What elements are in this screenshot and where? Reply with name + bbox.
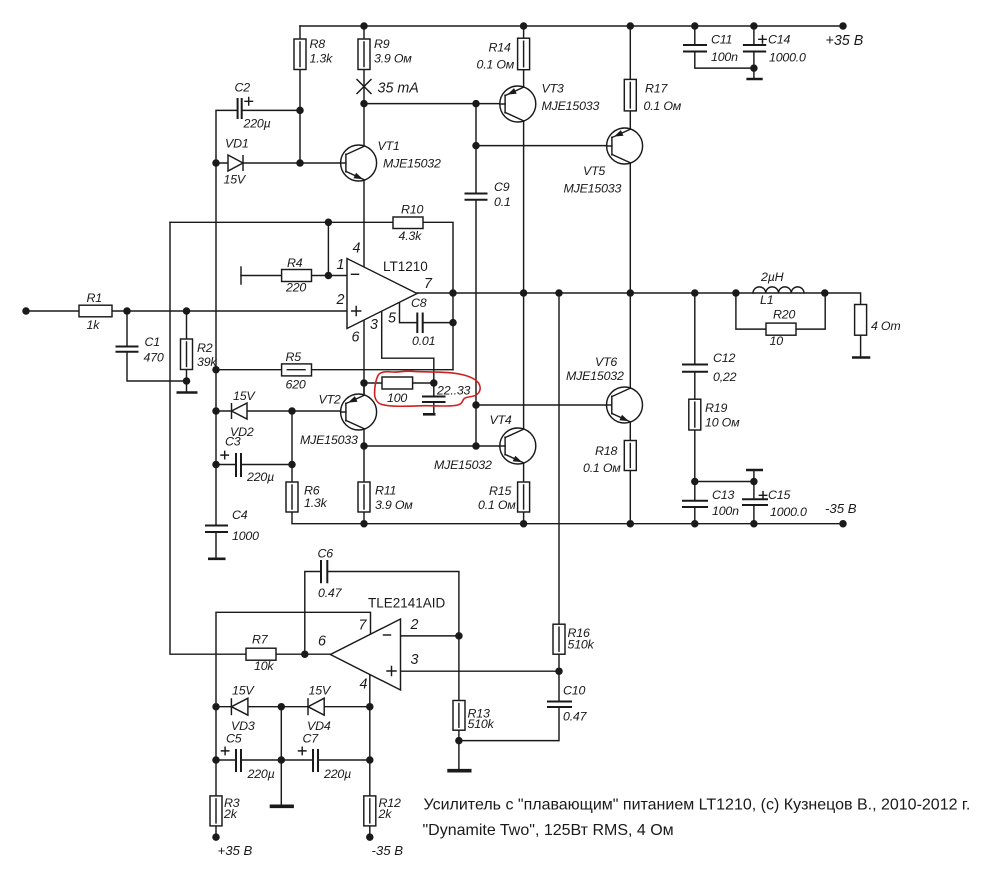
svg-text:C14: C14: [768, 33, 790, 47]
svg-text:2k: 2k: [223, 807, 238, 821]
svg-text:R4: R4: [287, 256, 303, 270]
svg-text:"Dynamite Two", 125Вт RMS, 4 О: "Dynamite Two", 125Вт RMS, 4 Ом: [423, 822, 674, 839]
svg-text:LT1210: LT1210: [383, 259, 428, 274]
svg-text:0.1 Ом: 0.1 Ом: [477, 58, 515, 72]
svg-text:0,22: 0,22: [713, 370, 737, 384]
svg-text:0.1 Ом: 0.1 Ом: [478, 498, 516, 512]
svg-text:1.3k: 1.3k: [310, 52, 334, 66]
svg-text:1000: 1000: [232, 529, 259, 543]
svg-text:4.3k: 4.3k: [399, 229, 423, 243]
svg-text:0.1: 0.1: [494, 195, 511, 209]
svg-text:3: 3: [370, 317, 378, 333]
svg-text:C2: C2: [235, 81, 251, 95]
svg-text:R17: R17: [645, 82, 668, 96]
svg-text:MJE15032: MJE15032: [566, 369, 624, 383]
svg-text:MJE15032: MJE15032: [383, 157, 441, 171]
svg-text:R1: R1: [87, 291, 102, 305]
svg-text:L1: L1: [760, 293, 773, 307]
svg-text:4 Om: 4 Om: [871, 319, 901, 333]
svg-text:3.9 Ом: 3.9 Ом: [374, 52, 412, 66]
svg-text:R18: R18: [595, 444, 617, 458]
svg-text:C9: C9: [494, 180, 510, 194]
svg-text:Усилитель с "плавающим" питани: Усилитель с "плавающим" питанием LT1210,…: [424, 797, 971, 814]
svg-text:2: 2: [410, 617, 419, 633]
svg-text:R19: R19: [705, 401, 727, 415]
svg-text:VT1: VT1: [378, 139, 400, 153]
svg-text:-35 В: -35 В: [825, 501, 857, 516]
svg-text:VT6: VT6: [595, 355, 617, 369]
svg-text:5: 5: [388, 311, 396, 327]
svg-text:510k: 510k: [568, 638, 595, 652]
svg-text:C8: C8: [411, 296, 427, 310]
svg-text:220µ: 220µ: [247, 767, 275, 781]
svg-text:10k: 10k: [254, 659, 274, 673]
svg-text:6: 6: [352, 330, 360, 346]
svg-text:1.3k: 1.3k: [304, 496, 328, 510]
svg-text:1k: 1k: [87, 318, 101, 332]
svg-text:10: 10: [770, 334, 784, 348]
svg-text:C6: C6: [318, 547, 334, 561]
svg-text:VT4: VT4: [490, 413, 512, 427]
svg-text:0.47: 0.47: [318, 586, 343, 600]
svg-text:MJE15032: MJE15032: [434, 458, 492, 472]
svg-text:4: 4: [353, 241, 361, 257]
svg-text:R5: R5: [286, 350, 302, 364]
svg-text:3: 3: [411, 652, 419, 668]
svg-text:C5: C5: [226, 732, 242, 746]
svg-text:MJE15033: MJE15033: [564, 182, 622, 196]
svg-text:1000.0: 1000.0: [769, 51, 806, 65]
svg-text:+35 В: +35 В: [218, 843, 253, 858]
svg-text:VT5: VT5: [583, 164, 605, 178]
svg-text:510k: 510k: [468, 717, 495, 731]
svg-text:2: 2: [336, 292, 345, 308]
svg-text:220µ: 220µ: [243, 117, 271, 131]
svg-text:-35 В: -35 В: [372, 843, 404, 858]
svg-text:C12: C12: [713, 351, 735, 365]
svg-text:C7: C7: [303, 732, 320, 746]
svg-text:MJE15033: MJE15033: [542, 99, 600, 113]
svg-text:R2: R2: [197, 341, 213, 355]
svg-text:15V: 15V: [224, 173, 247, 187]
svg-text:220: 220: [285, 281, 306, 295]
svg-text:6: 6: [318, 634, 326, 650]
svg-text:C11: C11: [711, 33, 732, 47]
svg-text:35 mA: 35 mA: [378, 81, 419, 97]
svg-text:22..33: 22..33: [436, 384, 471, 398]
svg-text:R9: R9: [374, 37, 390, 51]
svg-text:0.1 Ом: 0.1 Ом: [583, 461, 621, 475]
svg-text:VT2: VT2: [319, 393, 341, 407]
svg-text:R15: R15: [489, 484, 511, 498]
svg-text:220µ: 220µ: [246, 470, 274, 484]
svg-text:R20: R20: [773, 308, 795, 322]
svg-text:R10: R10: [401, 203, 423, 217]
svg-text:C10: C10: [563, 684, 585, 698]
svg-text:100n: 100n: [711, 50, 738, 64]
svg-text:15V: 15V: [233, 389, 256, 403]
svg-text:470: 470: [144, 351, 164, 365]
svg-text:7: 7: [424, 276, 433, 292]
svg-text:620: 620: [286, 378, 306, 392]
svg-text:2µH: 2µH: [760, 270, 784, 284]
svg-text:15V: 15V: [232, 684, 255, 698]
svg-text:100n: 100n: [712, 504, 739, 518]
svg-text:R11: R11: [375, 484, 396, 498]
svg-text:C15: C15: [768, 488, 790, 502]
svg-text:C4: C4: [232, 508, 248, 522]
svg-text:7: 7: [359, 618, 368, 634]
svg-text:4: 4: [360, 677, 368, 693]
svg-text:10 Ом: 10 Ом: [705, 416, 740, 430]
svg-text:C13: C13: [712, 488, 734, 502]
svg-text:MJE15033: MJE15033: [300, 433, 358, 447]
svg-text:3.9 Ом: 3.9 Ом: [375, 498, 413, 512]
svg-text:VD1: VD1: [225, 137, 249, 151]
svg-text:VT3: VT3: [542, 82, 564, 96]
svg-text:0.1 Ом: 0.1 Ом: [644, 99, 682, 113]
svg-text:39k: 39k: [197, 355, 217, 369]
svg-text:0.01: 0.01: [412, 334, 435, 348]
svg-text:R14: R14: [489, 41, 511, 55]
svg-text:C3: C3: [225, 435, 241, 449]
svg-text:R7: R7: [252, 633, 269, 647]
svg-text:2k: 2k: [378, 807, 393, 821]
svg-text:0.47: 0.47: [563, 710, 588, 724]
svg-text:R8: R8: [310, 37, 326, 51]
svg-text:1: 1: [337, 257, 345, 273]
svg-text:100: 100: [387, 391, 407, 405]
svg-text:1000.0: 1000.0: [770, 505, 807, 519]
svg-text:15V: 15V: [309, 684, 332, 698]
svg-text:+35 В: +35 В: [826, 33, 864, 49]
svg-text:C1: C1: [145, 335, 160, 349]
svg-text:TLE2141AID: TLE2141AID: [368, 596, 446, 611]
svg-text:220µ: 220µ: [323, 767, 351, 781]
